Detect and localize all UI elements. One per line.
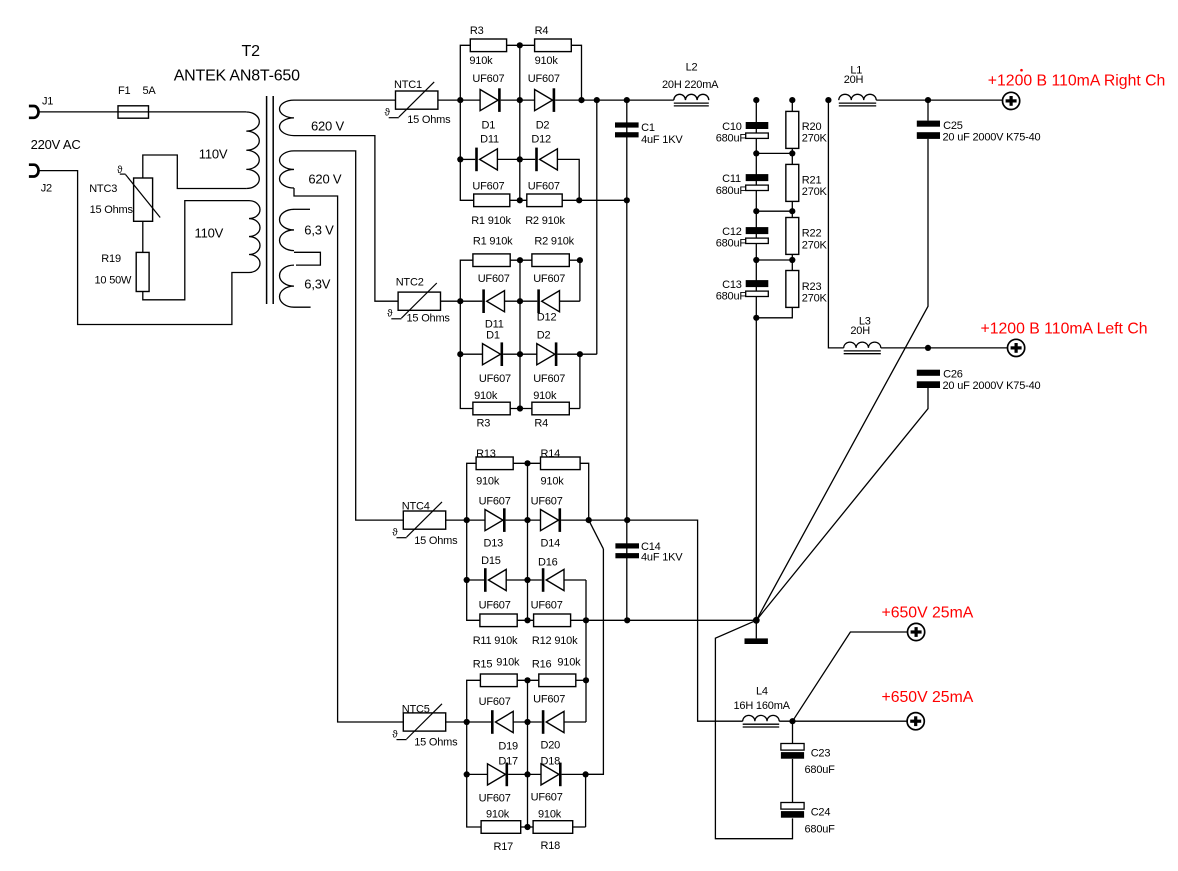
junction R1 row center [517, 197, 523, 203]
wire: bridge2 left column [460, 260, 473, 408]
diode D13 (UF607) [485, 510, 503, 531]
svg-text:D11: D11 [480, 133, 499, 145]
wire: NTC2 out to D11b [441, 300, 483, 302]
svg-text:UF607: UF607 [528, 73, 560, 85]
svg-text:6,3V: 6,3V [304, 277, 330, 292]
wire: bridge2 output column up to main row [596, 100, 598, 354]
node: main ground junction [753, 617, 760, 624]
svg-text:R1 910k: R1 910k [471, 215, 511, 227]
svg-text:J2: J2 [41, 183, 52, 195]
svg-text:ϑ: ϑ [392, 527, 398, 538]
wire: R20-R21 link [791, 148, 793, 164]
svg-text:C24: C24 [811, 806, 831, 818]
junction C14 top [624, 517, 630, 523]
svg-text:UF607: UF607 [472, 73, 504, 85]
wire: C25 bottom to ground junction [756, 139, 928, 620]
wire: bridge1 center column [519, 45, 521, 200]
thermistor NTC3 [134, 178, 153, 221]
stray mark above 1200 [1020, 69, 1023, 72]
diode D11 (UF607) [475, 148, 478, 172]
svg-text:D1: D1 [486, 330, 500, 342]
svg-text:910k: 910k [469, 55, 493, 67]
resistor R22 (270K) [786, 218, 799, 255]
wire: J1 to fuse F1 to transformer primary [38, 111, 246, 113]
wire: D11b to D12b [505, 300, 538, 302]
svg-text:UF607: UF607 [531, 599, 563, 611]
svg-text:D12: D12 [531, 133, 551, 145]
junction bridge3 top row center [524, 460, 530, 466]
wire: bridge3/4 right column [585, 580, 587, 722]
wire: D13 to D14 [506, 519, 541, 521]
svg-text:C26: C26 [943, 369, 963, 381]
resistor R11 (910k) [480, 614, 517, 627]
junction bleeder bottom [753, 315, 759, 321]
diode D1 (UF607) [480, 90, 498, 111]
wire: C25 top lead [927, 100, 929, 121]
svg-text:20 uF 2000V K75-40: 20 uF 2000V K75-40 [943, 131, 1041, 143]
wire: R2 row to C1 bottom [562, 199, 627, 201]
resistor R20 (270K) [786, 111, 799, 148]
diode D12b (UF607) [537, 289, 540, 313]
svg-text:D20: D20 [541, 740, 561, 752]
wire: L4 output down to C23 [792, 721, 794, 743]
wire: 6.3V winding 3 top stub [294, 208, 310, 210]
svg-text:R1 910k: R1 910k [473, 236, 513, 248]
svg-text:C25: C25 [943, 120, 963, 132]
junction R17 row center [524, 824, 530, 830]
svg-text:680uF: 680uF [805, 764, 836, 776]
svg-text:ϑ: ϑ [387, 309, 393, 320]
junction bridge2 bottom row center [517, 405, 523, 411]
svg-text:R3: R3 [477, 418, 491, 430]
svg-text:270K: 270K [802, 292, 828, 304]
svg-text:D15: D15 [481, 555, 501, 567]
diode D19 (UF607) [491, 710, 494, 734]
terminal +650V lower [907, 713, 924, 730]
wire: R4b right [569, 408, 580, 410]
resistor R18 (910k) [533, 821, 573, 834]
wire: left col to D17 [467, 773, 488, 775]
wire: C11/C12 to R21/R22 tie [756, 210, 792, 212]
svg-text:UF607: UF607 [479, 495, 511, 507]
svg-text:R18: R18 [541, 840, 561, 852]
junction D2b-R4b column [577, 351, 583, 357]
junction R16 right column [583, 677, 589, 683]
svg-text:R23: R23 [802, 281, 822, 293]
wire: D11 to D12 [497, 158, 535, 160]
svg-text:D14: D14 [541, 538, 561, 550]
junction D19 row center [524, 719, 530, 725]
svg-text:+1200 B 110mA Right Ch: +1200 B 110mA Right Ch [988, 72, 1166, 89]
diode D1b (UF607) [483, 344, 501, 365]
svg-text:680uF: 680uF [716, 238, 747, 250]
wire: R1 to R2 [510, 199, 527, 201]
wire: D2b out to x597 column [557, 353, 596, 355]
svg-text:910k: 910k [557, 656, 581, 668]
inductor L1 (20H) [839, 94, 876, 100]
svg-text:10 50W: 10 50W [95, 275, 133, 287]
wire: D19 to D20 [513, 721, 542, 723]
fuse F1 [118, 106, 149, 118]
svg-text:270K: 270K [802, 186, 828, 198]
svg-text:UF607: UF607 [533, 373, 565, 385]
svg-text:ϑ: ϑ [117, 165, 123, 176]
junction C10 top on main row [753, 97, 759, 103]
wire: primary 1 bottom to NTC3 top [143, 155, 247, 189]
wire: R2b to D12b column [569, 259, 580, 261]
wire: secondary 1 bottom to NTC2 [294, 136, 398, 302]
junction R20-R21 [789, 150, 795, 156]
connector J2 [29, 165, 39, 177]
junction R14 column on D13 row [586, 517, 592, 523]
capacitor C13 (680uF) [746, 280, 769, 287]
svg-text:UF607: UF607 [478, 273, 510, 285]
diode D17 (UF607) [488, 764, 506, 785]
svg-text:5A: 5A [143, 85, 157, 97]
diode D11b (UF607) [482, 289, 485, 313]
wire: secondary 2 bottom to NTC5 [294, 188, 403, 722]
wire: L3 to left-channel terminal [881, 347, 1008, 349]
junction R21-R22 [789, 208, 795, 214]
svg-text:270K: 270K [802, 239, 828, 251]
resistor R21 (270K) [786, 164, 799, 201]
junction bridge2 AC input [457, 298, 463, 304]
wire: bridge4 left column [467, 680, 481, 827]
resistor R1b (910k) [473, 254, 510, 267]
junction R20 top on main row [789, 97, 795, 103]
wire: L4 to lower +650V terminal [779, 720, 907, 722]
resistor R16 (910k) [539, 674, 576, 687]
wire: D15 to D16 [506, 579, 542, 581]
transformer secondary winding 3 (6.3V) [280, 209, 295, 250]
svg-text:F1: F1 [118, 85, 131, 97]
junction D11 row center [517, 156, 523, 162]
junction D13 row center [524, 517, 530, 523]
svg-text:T2: T2 [242, 43, 261, 60]
svg-text:620 V: 620 V [308, 171, 342, 186]
svg-text:16H 160mA: 16H 160mA [734, 700, 791, 712]
junction C25 top [925, 97, 931, 103]
svg-text:UF607: UF607 [479, 599, 511, 611]
wire: R16 right [576, 679, 586, 681]
wire: NTC1 out to D1 [438, 99, 480, 101]
svg-text:+1200 B 110mA Left Ch: +1200 B 110mA Left Ch [981, 320, 1148, 337]
capacitor C1 (4uF 1KV) [615, 122, 639, 127]
connector J1 [29, 106, 39, 118]
wire: series link between 6.3V windings [294, 252, 320, 265]
svg-text:910k: 910k [474, 390, 498, 402]
junction R4 column on main row [578, 97, 584, 103]
wire: bridge4 center column [527, 680, 529, 827]
capacitor C23 (680uF) [781, 744, 804, 751]
resistor R14 (910k) [541, 457, 581, 470]
wire: D17 to D18 [508, 773, 541, 775]
svg-text:R4: R4 [535, 25, 549, 37]
wire: D18 out to x603 corner [562, 773, 604, 775]
transformer secondary winding 4 (6.3V) [280, 265, 295, 307]
svg-text:C23: C23 [811, 748, 831, 760]
resistor R3 (910k) [470, 39, 506, 52]
svg-text:D12: D12 [537, 312, 557, 324]
wire: NTC3 to R19 [142, 221, 144, 252]
thermistor NTC5 [403, 713, 445, 731]
wire: C23 to C24 [792, 759, 794, 803]
svg-text:+650V 25mA: +650V 25mA [882, 689, 974, 706]
svg-text:4uF 1KV: 4uF 1KV [641, 552, 683, 564]
capacitor C11 (680uF) [746, 174, 769, 181]
wire: D20 out to right column [564, 721, 586, 723]
junction bridge2 top row center [517, 257, 523, 263]
wire: ground junction to C24 bottom [715, 620, 792, 838]
junction L4 output [789, 718, 795, 724]
wire: L3 branch down [828, 100, 843, 348]
svg-text:D17: D17 [498, 755, 518, 767]
junction top row bridge1 [517, 42, 523, 48]
wire: R14 to main row [580, 463, 589, 520]
wire: NTC5 out to D19 [446, 721, 491, 723]
ground symbol [755, 620, 757, 638]
resistor R4b (910k) [532, 402, 569, 415]
svg-text:R14: R14 [541, 448, 561, 460]
svg-text:NTC4: NTC4 [402, 500, 430, 512]
wire: R18 right [573, 826, 586, 828]
wire: R12 row to ground junction [571, 619, 757, 621]
junction D15 row left [464, 577, 470, 583]
wire: D1b to D2b [503, 353, 537, 355]
resistor R2b (910k) [532, 254, 569, 267]
svg-text:20H: 20H [850, 325, 870, 337]
resistor R1 (910k) [474, 194, 510, 207]
svg-text:910k: 910k [541, 476, 565, 488]
junction NTC2 row center [517, 298, 523, 304]
transformer primary winding 1 (110V) [246, 112, 259, 189]
svg-text:UF607: UF607 [479, 696, 511, 708]
junction bridge3 AC input [464, 517, 470, 523]
svg-text:D16: D16 [538, 556, 558, 568]
terminal +650V upper [908, 623, 925, 640]
svg-text:D19: D19 [498, 741, 518, 753]
transformer secondary winding 2 (620V) [280, 151, 295, 188]
svg-text:20H 220mA: 20H 220mA [662, 79, 719, 91]
svg-text:R22: R22 [802, 228, 822, 240]
svg-text:UF607: UF607 [531, 792, 563, 804]
thermistor NTC4 [403, 511, 445, 529]
resistor R12 (910k) [534, 614, 571, 627]
diode D15 (UF607) [484, 568, 487, 592]
svg-text:R17: R17 [494, 841, 514, 853]
wire: R17 to R18 [521, 826, 533, 828]
svg-text:UF607: UF607 [531, 495, 563, 507]
wire: C10-C13 column [755, 100, 757, 620]
svg-text:L2: L2 [686, 61, 698, 73]
wire: R4 to main row [571, 45, 581, 100]
svg-text:C10: C10 [722, 121, 742, 133]
svg-text:J1: J1 [42, 96, 53, 108]
thermistor NTC1 [396, 91, 438, 109]
svg-text:20H: 20H [844, 74, 864, 86]
wire: R15 to R16 [517, 679, 539, 681]
svg-text:ANTEK AN8T-650: ANTEK AN8T-650 [174, 67, 300, 84]
svg-text:15 Ohms: 15 Ohms [90, 204, 134, 216]
junction bridge4 top row center [524, 677, 530, 683]
svg-text:680uF: 680uF [805, 823, 836, 835]
svg-text:680uF: 680uF [716, 185, 747, 197]
svg-text:C1: C1 [641, 122, 655, 134]
resistor R4 (910k) [535, 39, 572, 52]
svg-text:6,3 V: 6,3 V [304, 223, 334, 238]
junction bridge4 AC input [464, 719, 470, 725]
svg-text:15 Ohms: 15 Ohms [407, 313, 451, 325]
svg-text:910k: 910k [533, 390, 557, 402]
wire: C12/C13 to R22/R23 tie [756, 259, 792, 261]
wire: R13 to R14 [513, 462, 540, 464]
transformer T2 core [266, 96, 268, 304]
svg-text:NTC1: NTC1 [394, 79, 422, 91]
terminal +1200V right channel [1003, 92, 1020, 109]
transformer primary winding 2 (110V) [249, 201, 260, 273]
svg-text:UF607: UF607 [533, 694, 565, 706]
inductor L2 (20H 220mA) [674, 94, 709, 100]
wire: R3b to R4b [510, 408, 532, 410]
wire: secondary 1 top to NTC1 [294, 99, 396, 101]
wire: secondary 2 top to NTC4 [294, 151, 403, 520]
svg-text:110V: 110V [195, 226, 224, 241]
junction D17 row center [524, 771, 530, 777]
junction R11 row center [524, 617, 530, 623]
junction D17 row left [464, 771, 470, 777]
svg-text:NTC3: NTC3 [89, 183, 117, 195]
svg-text:UF607: UF607 [528, 180, 560, 192]
svg-text:UF607: UF607 [472, 180, 504, 192]
junction bridge2 return on main row [594, 97, 600, 103]
wire: bridge3 center column [527, 463, 529, 620]
junction R22-R23 [789, 257, 795, 263]
wire: L1 to right-channel terminal [876, 99, 1002, 101]
svg-text:D1: D1 [482, 120, 496, 132]
wire: bridge2 right column lower [579, 354, 581, 408]
svg-text:C12: C12 [722, 226, 742, 238]
terminal +1200V left channel [1008, 339, 1025, 356]
junction R2b right [577, 257, 583, 263]
wire: R3 to R4 [507, 44, 535, 46]
svg-text:UF607: UF607 [479, 793, 511, 805]
svg-text:270K: 270K [802, 133, 828, 145]
svg-text:R19: R19 [101, 253, 121, 265]
resistor R13 (910k) [476, 457, 513, 470]
capacitor C10 (680uF) [746, 122, 769, 129]
resistor R17 (910k) [481, 821, 521, 834]
wire: C1/C14 column (main row to bridge3 rows) [626, 100, 628, 620]
diode D2b (UF607) [537, 344, 555, 365]
svg-text:R15: R15 [473, 658, 493, 670]
svg-text:ϑ: ϑ [392, 729, 398, 740]
junction C26 top [925, 345, 931, 351]
diode D20 (UF607) [542, 710, 545, 734]
inductor L4 (16H 160mA) [743, 715, 780, 721]
capacitor C14 (4uF 1KV) [615, 543, 639, 548]
junction R12 right column [583, 617, 589, 623]
svg-text:D13: D13 [484, 538, 504, 550]
wire: R11 to R12 [517, 619, 533, 621]
junction D1b row left [457, 351, 463, 357]
wire: main HT row D2 to L2 [555, 99, 674, 101]
svg-text:R21: R21 [802, 175, 822, 187]
junction C12-C13 [753, 257, 759, 263]
svg-text:910k: 910k [538, 808, 562, 820]
svg-text:D2: D2 [537, 330, 551, 342]
svg-text:R16: R16 [532, 658, 552, 670]
svg-text:C13: C13 [722, 279, 742, 291]
svg-text:15 Ohms: 15 Ohms [407, 114, 451, 126]
svg-text:R2 910k: R2 910k [525, 215, 565, 227]
svg-text:NTC5: NTC5 [402, 703, 430, 715]
junction D11 row left [457, 156, 463, 162]
capacitor C12 (680uF) [746, 227, 769, 234]
resistor R3b (910k) [473, 402, 510, 415]
wire: left col to D1b [460, 353, 482, 355]
svg-text:20 uF 2000V K75-40: 20 uF 2000V K75-40 [943, 380, 1041, 392]
svg-text:R20: R20 [802, 121, 822, 133]
capacitor C25 (20uF 2000V) [917, 121, 940, 127]
wire: R19 bottom to primary 2 top [143, 201, 249, 300]
svg-text:R12 910k: R12 910k [532, 635, 578, 647]
wire: R22-R23 link [791, 254, 793, 270]
svg-text:910k: 910k [476, 476, 500, 488]
diode D12 (UF607) [535, 148, 538, 172]
inductor L3 (20H) [844, 342, 881, 348]
svg-text:ϑ: ϑ [385, 107, 391, 118]
resistor R2 (910k) [527, 194, 562, 207]
junction C14 bottom [624, 617, 630, 623]
junction main row center bridge1 [517, 97, 523, 103]
diode D14 (UF607) [541, 510, 559, 531]
capacitor C24 (680uF) [781, 803, 804, 810]
wire: R1b to R2b [510, 259, 532, 261]
svg-text:R4: R4 [534, 418, 548, 430]
svg-text:910k: 910k [496, 656, 520, 668]
wire: D16 out to right column [564, 579, 586, 581]
svg-text:NTC2: NTC2 [396, 277, 424, 289]
capacitor C26 (20uF 2000V) [917, 370, 940, 376]
wire: D14 row to L4 column [561, 520, 743, 721]
resistor R15 (910k) [480, 674, 517, 687]
wire: NTC4 out to D13 [446, 519, 485, 521]
junction C1 on main row [624, 97, 630, 103]
svg-text:L4: L4 [756, 685, 768, 697]
wire: bridge2 center column [519, 260, 521, 408]
svg-text:4uF 1KV: 4uF 1KV [641, 134, 683, 146]
svg-text:R13: R13 [476, 448, 496, 460]
svg-text:R3: R3 [470, 25, 484, 37]
svg-text:R11 910k: R11 910k [473, 635, 518, 647]
svg-text:910k: 910k [486, 808, 510, 820]
diode D2 (UF607) [535, 90, 553, 111]
svg-text:220V AC: 220V AC [31, 137, 81, 152]
resistor R23 (270K) [786, 271, 799, 308]
svg-text:D2: D2 [536, 120, 550, 132]
junction L3 branch on main row [825, 97, 831, 103]
svg-text:R2 910k: R2 910k [534, 236, 574, 248]
svg-text:910k: 910k [535, 55, 559, 67]
wire: x603 column down to D17 row [586, 549, 604, 775]
wire: D12b out [560, 300, 580, 302]
svg-text:680uF: 680uF [716, 291, 747, 303]
wire: bridge3 left column [467, 463, 480, 620]
wire: slant from D13 row to x603 column [589, 520, 604, 549]
wire: J2 to primary 2 bottom [39, 171, 250, 325]
wire: bridge1 left column [460, 45, 473, 200]
junction D15 row center [524, 577, 530, 583]
